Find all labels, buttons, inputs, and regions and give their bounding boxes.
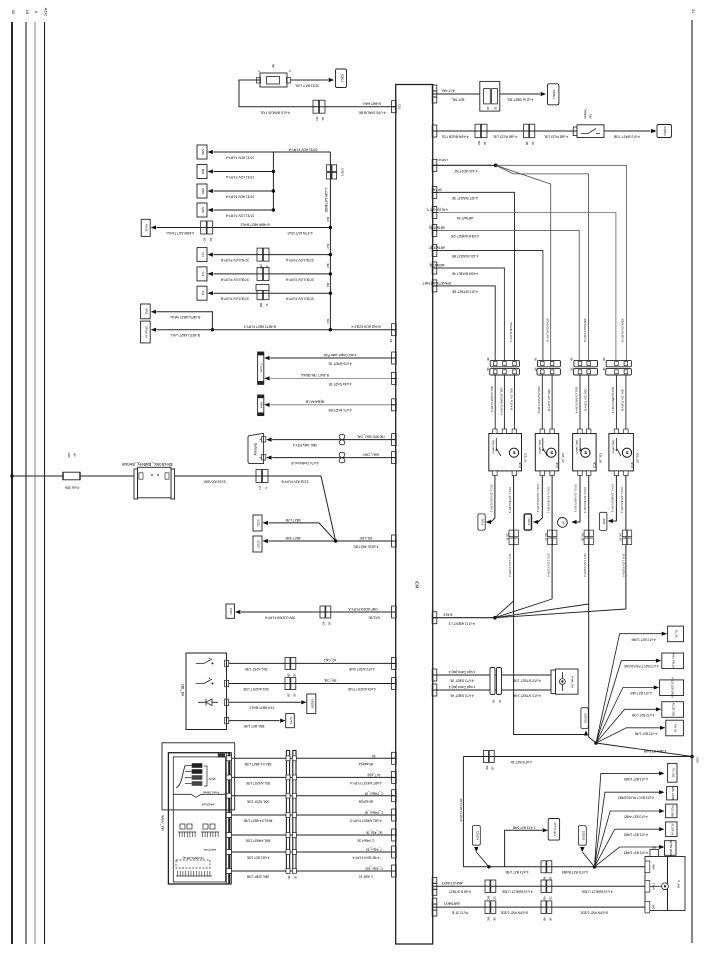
wire rail to fuse: [12, 475, 63, 477]
connector box UPaD2: [141, 321, 151, 343]
arrow into S301: [329, 78, 334, 82]
svg-text:37/4 L.GV/B FLRY-3: 37/4 L.GV/B FLRY-3: [620, 487, 624, 514]
svg-text:S916: S916: [481, 519, 485, 526]
svg-text:4E: 4E: [498, 699, 502, 702]
svg-text:4-uT3 S/TB2T 1/3E: 4-uT3 S/TB2T 1/3E: [512, 678, 541, 682]
svg-text:4-uT2 B2T L/3B: 4-uT2 B2T L/3B: [632, 713, 654, 717]
svg-text:37/3L/LGV FLRY-A: 37/3L/LGV FLRY-A: [285, 297, 314, 301]
svg-text:51+5B|51+5B aly: 51+5B|51+5B aly: [182, 856, 204, 860]
wire row 3: [214, 190, 274, 192]
arrow into box row 4: [208, 208, 213, 212]
fan branch 2 to col 588.6: [496, 165, 589, 360]
svg-text:x-ard Cmpd -aaw P4A: x-ard Cmpd -aaw P4A: [323, 353, 356, 357]
svg-text:C_4dpr_3d2: C_4dpr_3d2: [365, 867, 383, 871]
svg-text:4-4aW B/a2B T/3L: 4-4aW B/a2B T/3L: [441, 134, 468, 138]
svg-text:4-4T3I B2T B/4B5: 4-4T3I B2T B/4B5: [562, 870, 588, 874]
svg-text:37V1.GV.FLRY-A: 37V1.GV.FLRY-A: [545, 318, 549, 343]
splice box S2/11: [253, 515, 262, 531]
connector pins group2 row 2: [257, 267, 263, 280]
svg-text:aB_Ca|L: aB_Ca|L: [323, 678, 336, 682]
wire row A to splice: [500, 93, 540, 95]
svg-text:4B: 4B: [543, 876, 547, 880]
svg-text:4-4T1 B2T 44B: 4-4T1 B2T 44B: [630, 691, 652, 695]
connector pins group2 row 1: [257, 248, 263, 261]
svg-text:DE|DB: DE|DB: [310, 699, 314, 708]
svg-text:4B: 4B: [543, 917, 547, 921]
wire door2 down column: [551, 476, 553, 600]
wire S row 523: [269, 523, 336, 541]
svg-text:3E: 3E: [292, 693, 296, 697]
svg-text:3E: 3E: [486, 367, 490, 371]
svg-text:3E: 3E: [548, 876, 552, 880]
wire door col x552 bars to module: [551, 375, 553, 429]
svg-text:C1: C1: [258, 486, 262, 490]
svg-text:3E: 3E: [491, 766, 495, 770]
svg-text:4-uT2 A/32T 3/4E: 4-uT2 A/32T 3/4E: [348, 667, 375, 671]
wire row 4: [214, 209, 274, 211]
svg-text:S2|12: S2|12: [257, 540, 261, 548]
svg-text:C_V4aue_3d: C_V4aue_3d: [364, 811, 383, 815]
svg-text:Electronic_Battery_Sensor: Electronic_Battery_Sensor: [121, 462, 172, 467]
svg-text:P3L 3d: P3L 3d: [674, 724, 678, 733]
svg-text:37/31 ADV FLRY-A: 37/31 ADV FLRY-A: [288, 147, 318, 151]
wire row 405: [270, 404, 396, 406]
wire door col x580 bars to module: [579, 375, 581, 429]
fan wire J2 branch 3: [596, 688, 654, 744]
svg-text:4(1)2: 4(1)2: [593, 462, 596, 468]
svg-text:30/L A/42ST 1/3E: 30/L A/42ST 1/3E: [242, 687, 268, 691]
wire door2 left to splice S91F: [538, 476, 542, 523]
connector box group2 row 1: [197, 248, 207, 262]
wiper connector bars at module edge: [226, 753, 228, 884]
svg-text:4-42U AD2T B2: 4-42U AD2T B2: [454, 169, 477, 173]
svg-text:30/L.GV FLRY-B: 30/L.GV FLRY-B: [509, 388, 513, 410]
connector pair 2 row B: [524, 124, 529, 138]
motor M door 2: [547, 448, 556, 457]
svg-text:4-uBH ST D/4B: 4-uBH ST D/4B: [643, 749, 666, 753]
svg-text:MIR: MIR: [201, 149, 205, 155]
arrow S2/11: [263, 521, 268, 525]
svg-text:3E: 3E: [494, 106, 498, 109]
arrow into box row 3: [208, 189, 213, 193]
svg-text:30A: 30A: [67, 452, 71, 457]
splice S301: [336, 69, 347, 88]
arrow gateway CAN-L: [266, 456, 271, 460]
svg-text:BN: BN: [259, 303, 263, 307]
svg-text:RF: RF: [73, 453, 77, 457]
svg-text:4(1)2: 4(1)2: [555, 462, 558, 468]
door connector bars group 2: [538, 360, 561, 366]
svg-text:37/1 L.GV FLRY-4: 37/1 L.GV FLRY-4: [508, 553, 512, 577]
svg-text:37/3L/LGV FLRY-B: 37/3L/LGV FLRY-B: [220, 258, 249, 262]
svg-text:LSH(4): LSH(4): [438, 158, 448, 162]
svg-text:3B: 3B: [287, 673, 291, 677]
svg-text:PN23 LGB D4|3d: PN23 LGB D4|3d: [671, 678, 675, 699]
svg-text:UPad 3d: UPad 3d: [144, 326, 148, 338]
svg-text:aaBTa4(V): aaBTa4(V): [444, 902, 460, 906]
svg-text:ADTB3 3B2d5: ADTB3 3B2d5: [669, 840, 673, 857]
svg-text:UP|1: UP|1: [144, 308, 148, 315]
svg-text:37/31 ADV FLRY-A: 37/31 ADV FLRY-A: [225, 155, 255, 159]
svg-text:33V4.GV.FLRY-A: 33V4.GV.FLRY-A: [621, 318, 625, 343]
svg-text:30/L A2ST 1/3E: 30/L A2ST 1/3E: [244, 667, 268, 671]
wire door col x504 bars to module: [503, 375, 505, 429]
svg-text:B-4a2 ACB E2|E2-4: B-4a2 ACB E2|E2-4: [351, 325, 380, 329]
svg-text:4E: 4E: [209, 238, 213, 242]
switch contact 2: [196, 679, 212, 684]
splice S701: [286, 714, 295, 728]
svg-text:4B: 4B: [525, 141, 529, 145]
wire row B from module: [433, 130, 577, 132]
svg-text:OBF AD2/A FLRY-A: OBF AD2/A FLRY-A: [348, 607, 378, 611]
svg-text:3T/4 AB2T B/4L2: 3T/4 AB2T B/4L2: [249, 706, 274, 710]
svg-text:aBTadT 3j: aBTadT 3j: [429, 263, 444, 267]
pins CBL_DA: [225, 660, 229, 666]
svg-text:30/L.GV/LB FLRY-3: 30/L.GV/LB FLRY-3: [490, 386, 494, 413]
svg-text:x ugd Cahd (ad) 3: x ugd Cahd (ad) 3: [449, 670, 476, 674]
svg-text:P|4: P|4: [201, 291, 205, 296]
svg-text:30/L.GV FLRY-B: 30/L.GV FLRY-B: [621, 389, 625, 411]
svg-text:37/31 ADV FLRY-A: 37/31 ADV FLRY-A: [225, 194, 255, 198]
svg-text:4-uT3 S/B2T 3E: 4-uT3 S/B2T 3E: [449, 678, 473, 682]
svg-text:3L: 3L: [265, 304, 269, 308]
motor M door 4: [622, 448, 631, 457]
svg-text:4-uT3 B2CT RU/1D2/4B: 4-uT3 B2CT RU/1D2/4B: [624, 664, 658, 668]
module CBL_DA: [186, 653, 227, 730]
svg-text:4B aah|1a: 4B aah|1a: [359, 762, 374, 766]
wiper comb contacts lower: [176, 875, 212, 877]
svg-text:lock_switch: lock_switch: [575, 440, 579, 454]
svg-text:PN23 3dB: PN23 3dB: [670, 805, 674, 817]
svg-text:31/32 A2V FLRY-B: 31/32 A2V FLRY-B: [280, 479, 308, 483]
svg-text:aBTadT 3g: aBTadT 3g: [429, 226, 445, 230]
svg-text:C8: C8: [389, 339, 393, 343]
svg-text:aaly(Tyaa: aaly(Tyaa: [204, 848, 217, 852]
svg-text:Wiper_SW: Wiper_SW: [161, 815, 165, 830]
wire row 378: [270, 377, 396, 379]
svg-text:4-uT3 S/TB2T 1/4E: 4-uT3 S/TB2T 1/4E: [512, 693, 541, 697]
fan branch 3 to col 550.7: [496, 165, 551, 360]
wire door3 down column: [589, 476, 596, 744]
wire row 311 loop: [157, 312, 213, 330]
wire right row 1 to column x514: [433, 192, 515, 360]
bus vertical join group1: [272, 152, 274, 210]
wire J2 to ground rail: [596, 743, 692, 757]
wire row 612: [241, 611, 396, 613]
svg-text:B2T TAL: B2T TAL: [452, 97, 465, 101]
motor M door 3: [581, 448, 590, 457]
connector pins on AC31L wire: [201, 221, 207, 234]
svg-text:4-uB1E 4B2T BE: 4-uB1E 4B2T BE: [353, 544, 379, 548]
svg-text:S701: S701: [289, 717, 293, 724]
svg-text:4-uT2 B2T 1/4B: 4-uT2 B2T 1/4B: [635, 731, 657, 735]
terminal box PL_3a2: [668, 763, 677, 782]
svg-text:4-uT1J A/B2xT L3: 4-uT1J A/B2xT L3: [449, 621, 475, 625]
svg-text:4(1)2: 4(1)2: [630, 462, 633, 468]
wiper comb contacts upper: [178, 831, 196, 833]
wire door col x514 bars to module: [514, 375, 516, 429]
wire fuse to battery sensor: [80, 475, 136, 477]
connector C4E on vertical bus: [327, 165, 332, 172]
svg-text:3B: 3B: [602, 357, 606, 361]
arrow into S4B3: [651, 129, 656, 133]
svg-text:4E3: 4E3: [326, 282, 330, 287]
wire door4 left to splice S915: [613, 476, 616, 522]
svg-text:37/4 L.GV FLRY-4: 37/4 L.GV FLRY-4: [621, 553, 625, 577]
svg-text:31/31 B/LT L/GL: 31/31 B/LT L/GL: [295, 84, 320, 88]
wiper wire row 3: [232, 795, 396, 797]
arrow S2/12: [263, 539, 268, 543]
svg-text:B|/BA/4A 1B: B|/BA/4A 1B: [305, 400, 324, 404]
connector on EBS wire: [256, 470, 262, 483]
svg-text:PuT2 3T B: PuT2 3T B: [451, 911, 467, 915]
svg-text:lock_switch: lock_switch: [612, 440, 616, 454]
in-line fuse holder component: [480, 81, 500, 111]
connector pins on door2 column: [548, 530, 552, 537]
svg-text:C4E/3: C4E/3: [341, 168, 345, 176]
splice S916: [478, 514, 485, 530]
svg-text:a4a(Tau4: a4a(Tau4: [201, 803, 214, 807]
svg-text:B-BU/T 7BL/3B/4A: B-BU/T 7BL/3B/4A: [300, 373, 328, 377]
svg-text:B-4BW AB2T B/4L2: B-4BW AB2T B/4L2: [240, 222, 269, 226]
vertical bus x330: [329, 152, 331, 330]
svg-text:30: 30: [11, 10, 16, 15]
svg-text:MIR: MIR: [201, 169, 205, 175]
svg-text:K: K: [259, 439, 263, 441]
svg-text:S.Lever: S.Lever: [260, 363, 264, 373]
svg-text:DK 3L: DK 3L: [505, 533, 509, 541]
svg-text:PL_3a: PL_3a: [675, 630, 679, 638]
wire ground loop bottom: [463, 866, 648, 868]
svg-text:30/L.GV/BN FLRY-4: 30/L.GV/BN FLRY-4: [611, 387, 615, 414]
svg-text:4(1)2: 4(1)2: [518, 462, 521, 468]
svg-text:3B/L 32BT L/3B: 3B/L 32BT L/3B: [247, 875, 269, 879]
svg-text:DK 3R: DK 3R: [619, 533, 623, 541]
arrow row 378: [264, 376, 269, 380]
component Vbatt lamp: [551, 670, 556, 694]
terminal box AC33F 3d: [666, 822, 677, 837]
wire CBL_DA row 720 to S701: [229, 720, 280, 722]
svg-text:S4(B)3: S4(B)3: [663, 126, 667, 136]
connector pins row 612: [320, 606, 325, 618]
arrow into box row 1: [208, 150, 213, 154]
svg-text:3E: 3E: [531, 141, 535, 145]
svg-text:37/2 L.GV/VO FLRY-3: 37/2 L.GV/VO FLRY-3: [536, 484, 540, 513]
svg-text:4-uT2 B2T 12/4B: 4-uT2 B2T 12/4B: [631, 637, 655, 641]
svg-text:4-u3a S/42T 3E: 4-u3a S/42T 3E: [328, 382, 352, 386]
arrow into AC31L: [151, 225, 156, 229]
wire row 1: [214, 151, 274, 153]
arrow group2 row 2: [208, 272, 213, 276]
svg-text:4-uT3 S/B2T 4E: 4-uT3 S/B2T 4E: [449, 693, 473, 697]
svg-text:4-aT3 B2T L/3B: 4-aT3 B2T L/3B: [505, 870, 529, 874]
svg-text:4-uTB S/WL/B BE: 4-uTB S/WL/B BE: [358, 110, 386, 114]
wire row 2: [214, 171, 274, 173]
svg-text:P_4W: P_4W: [677, 880, 681, 888]
svg-text:33.GB.FLRY-4: 33.GB.FLRY-4: [509, 322, 513, 342]
svg-text:37/3 L.GV FLRY-4: 37/3 L.GV FLRY-4: [583, 553, 587, 577]
connector bars on Vbatt rows: [490, 668, 495, 695]
svg-text:B-4BT2 AB2T FLRY-3: B-4BT2 AB2T FLRY-3: [244, 325, 276, 329]
svg-text:4-uT4 CmBd/ud -B: 4-uT4 CmBd/ud -B: [290, 461, 318, 465]
wire Vbatt row 2: [433, 689, 555, 691]
svg-text:4E3: 4E3: [326, 217, 330, 222]
connector pins on door4 column: [622, 530, 626, 537]
svg-text:3E: 3E: [321, 117, 325, 121]
svg-text:4-4TW AUT D/LE: 4-4TW AUT D/LE: [286, 231, 312, 235]
svg-text:3B: 3B: [533, 357, 537, 361]
svg-text:3W2: 3W2: [651, 905, 654, 911]
svg-text:4-u1U B/WL/B T/GL: 4-u1U B/WL/B T/GL: [260, 111, 290, 115]
svg-text:ICM: ICM: [415, 581, 420, 589]
svg-text:AC3|L: AC3|L: [145, 224, 149, 233]
diode symbol: [198, 699, 218, 706]
twisted pair symbol: [339, 434, 345, 444]
svg-text:X: X: [34, 11, 39, 14]
svg-text:3E: 3E: [483, 141, 487, 145]
svg-text:1uT_4(u): 1uT_4(u): [368, 773, 381, 777]
fan wire J3 branch 5: [595, 847, 660, 867]
svg-text:P|4: P|4: [201, 252, 205, 257]
svg-text:ATTT La|LL: ATTT La|LL: [553, 822, 557, 836]
svg-text:34: 34: [561, 521, 565, 525]
arrow row 612: [235, 610, 240, 614]
connector SelfLever box: [258, 352, 264, 384]
fan wire J2 branch 1: [596, 634, 662, 743]
wire door3 left to ground 34: [577, 476, 580, 523]
svg-text:M: M: [512, 451, 516, 454]
splice S29201: [581, 708, 588, 729]
wiper wire row 4: [232, 814, 396, 816]
svg-text:3E: 3E: [327, 622, 331, 626]
svg-text:B 4E3: B 4E3: [443, 612, 452, 616]
wire door1 left to splice S916: [491, 476, 495, 523]
svg-text:M: M: [549, 451, 553, 454]
svg-text:4B2T 3/4E: 4B2T 3/4E: [284, 536, 300, 540]
fan branch 1 to col 626.6: [496, 165, 627, 360]
svg-text:Gateway: Gateway: [254, 443, 258, 456]
door lock module CB_3L: [489, 434, 522, 471]
svg-text:3PT3d: 3PT3d: [432, 187, 442, 191]
splice S4B3: [657, 125, 672, 138]
svg-text:30L-LDE: 30L-LDE: [359, 536, 373, 540]
door lock module CB_3R: [609, 434, 634, 471]
arrow row 311: [151, 310, 156, 314]
wire antenna amp loop: [505, 830, 542, 867]
wire ground loop top: [463, 756, 692, 758]
module pin C81/2: [392, 101, 397, 107]
svg-text:4-4BW AUT TA/4LL: 4-4BW AUT TA/4LL: [166, 231, 195, 235]
svg-text:4B: 4B: [543, 896, 547, 900]
terminal box PL_3a: [668, 626, 684, 642]
svg-text:M: M: [583, 451, 587, 454]
power rail 30: [11, 22, 13, 944]
wire AC31L to bus: [157, 227, 331, 229]
terminal ATTT box: [548, 819, 559, 841]
svg-text:aB aah|3a: aB aah|3a: [359, 799, 374, 803]
arrow row 405: [264, 403, 269, 407]
svg-text:37/3L/LGV FLRY-B: 37/3L/LGV FLRY-B: [220, 297, 249, 301]
svg-text:4-uT3 B2T 1/4B5: 4-uT3 B2T 1/4B5: [624, 777, 648, 781]
relay K1 Ign: [260, 73, 287, 87]
svg-text:33V3.GV.FLRY-A: 33V3.GV.FLRY-A: [583, 318, 587, 343]
svg-text:Vbatt_/4d: Vbatt_/4d: [571, 675, 575, 688]
svg-text:4-uBT A/42ST FLRY-4: 4-uBT A/42ST FLRY-4: [350, 781, 382, 785]
svg-text:BC: BC: [287, 876, 291, 880]
svg-text:C_V4aue_34: C_V4aue_34: [364, 791, 383, 795]
svg-text:W8L L4|3B: W8L L4|3B: [671, 787, 675, 800]
wire CAN-H: [272, 439, 396, 441]
svg-text:4W4: 4W4: [651, 864, 654, 870]
svg-text:4-43M B/A3ET 4E: 4-43M B/A3ET 4E: [451, 272, 478, 276]
svg-text:4-4B 3DV4 FLRY-4: 4-4B 3DV4 FLRY-4: [352, 856, 379, 860]
wire right row 4 to column x542: [433, 251, 543, 361]
svg-text:3B: 3B: [486, 357, 490, 361]
svg-text:S9|5: S9|5: [602, 518, 606, 524]
terminal box ADTB3 3B2d5: [665, 841, 677, 856]
svg-text:4-uTa B/R2T 3E: 4-uTa B/R2T 3E: [328, 361, 352, 365]
wire column1 to splice S29201: [514, 618, 586, 735]
svg-text:4-u8d Pu23 L/3L: 4-u8d Pu23 L/3L: [544, 134, 569, 138]
svg-text:4-uB1 B2T 1/3E: 4-uB1 B2T 1/3E: [247, 856, 270, 860]
wiper wash switch line: [173, 794, 225, 797]
connector pins on door1 column: [509, 530, 513, 537]
junction on rail 30: [10, 474, 13, 477]
svg-text:3E: 3E: [492, 917, 496, 921]
fan wire J2 branch 2: [596, 661, 656, 743]
connector box group2 row 2: [197, 267, 207, 281]
svg-text:S2|11: S2|11: [257, 519, 261, 527]
fan junction to columns: [495, 601, 514, 618]
wire antenna row 907: [433, 906, 645, 908]
svg-text:4-u1d BUBL2T L/3DE: 4-u1d BUBL2T L/3DE: [502, 890, 533, 894]
svg-text:B: B: [259, 457, 263, 459]
connector bar column C304: [286, 751, 289, 873]
svg-text:4-uT2 B/TB2T BE: 4-uT2 B/TB2T BE: [451, 290, 478, 294]
module Wiper_SW inner: [168, 753, 229, 884]
svg-text:PWL 34|L3d: PWL 34|L3d: [672, 654, 676, 669]
svg-text:C V4au4 3a: C V4au4 3a: [357, 839, 374, 843]
svg-text:aB4V2T A4NT: aB4V2T A4NT: [441, 881, 462, 885]
svg-text:a2_Ca|1: a2_Ca|1: [324, 658, 337, 662]
door connector bars group 1: [490, 360, 519, 366]
svg-text:30V-LD2A/A FLRY-A: 30V-LD2A/A FLRY-A: [264, 615, 295, 619]
power rail ACC: [44, 22, 46, 944]
svg-text:3E: 3E: [293, 876, 297, 880]
ground rail 31 right: [691, 20, 693, 943]
wire row 358: [270, 357, 396, 359]
wire group2 row 3: [214, 292, 331, 294]
svg-text:C 4abr 3d: C 4abr 3d: [359, 875, 373, 879]
svg-text:37/1 L.GV/B FLRY-3: 37/1 L.GV/B FLRY-3: [508, 487, 512, 514]
fuse 30A: [63, 472, 80, 480]
connector box UPaD1: [141, 304, 151, 319]
svg-text:37/2 L.GV FLRY-4: 37/2 L.GV FLRY-4: [547, 553, 551, 577]
svg-text:DK 3V: DK 3V: [544, 533, 548, 541]
antenna module P_ANT: [650, 850, 659, 857]
svg-text:PL_3a2: PL_3a2: [671, 768, 675, 778]
svg-text:)Br|4(: )Br|4(: [208, 777, 215, 781]
svg-text:37/1 L.GV/LB FLRY-3: 37/1 L.GV/LB FLRY-3: [490, 484, 494, 512]
wiper wire row 2: [232, 776, 396, 778]
power rail 15I: [34, 22, 36, 944]
svg-text:3B: 3B: [570, 357, 574, 361]
svg-text:B-BAT AAN: B-BAT AAN: [363, 101, 381, 105]
svg-text:3B/L A/4B2T 1/3E: 3B/L A/4B2T 1/3E: [245, 839, 270, 843]
svg-text:4B2T L/3E: 4B2T L/3E: [284, 518, 300, 522]
svg-text:M: M: [625, 451, 629, 454]
svg-text:AC33F 3d: AC33F 3d: [670, 823, 674, 835]
